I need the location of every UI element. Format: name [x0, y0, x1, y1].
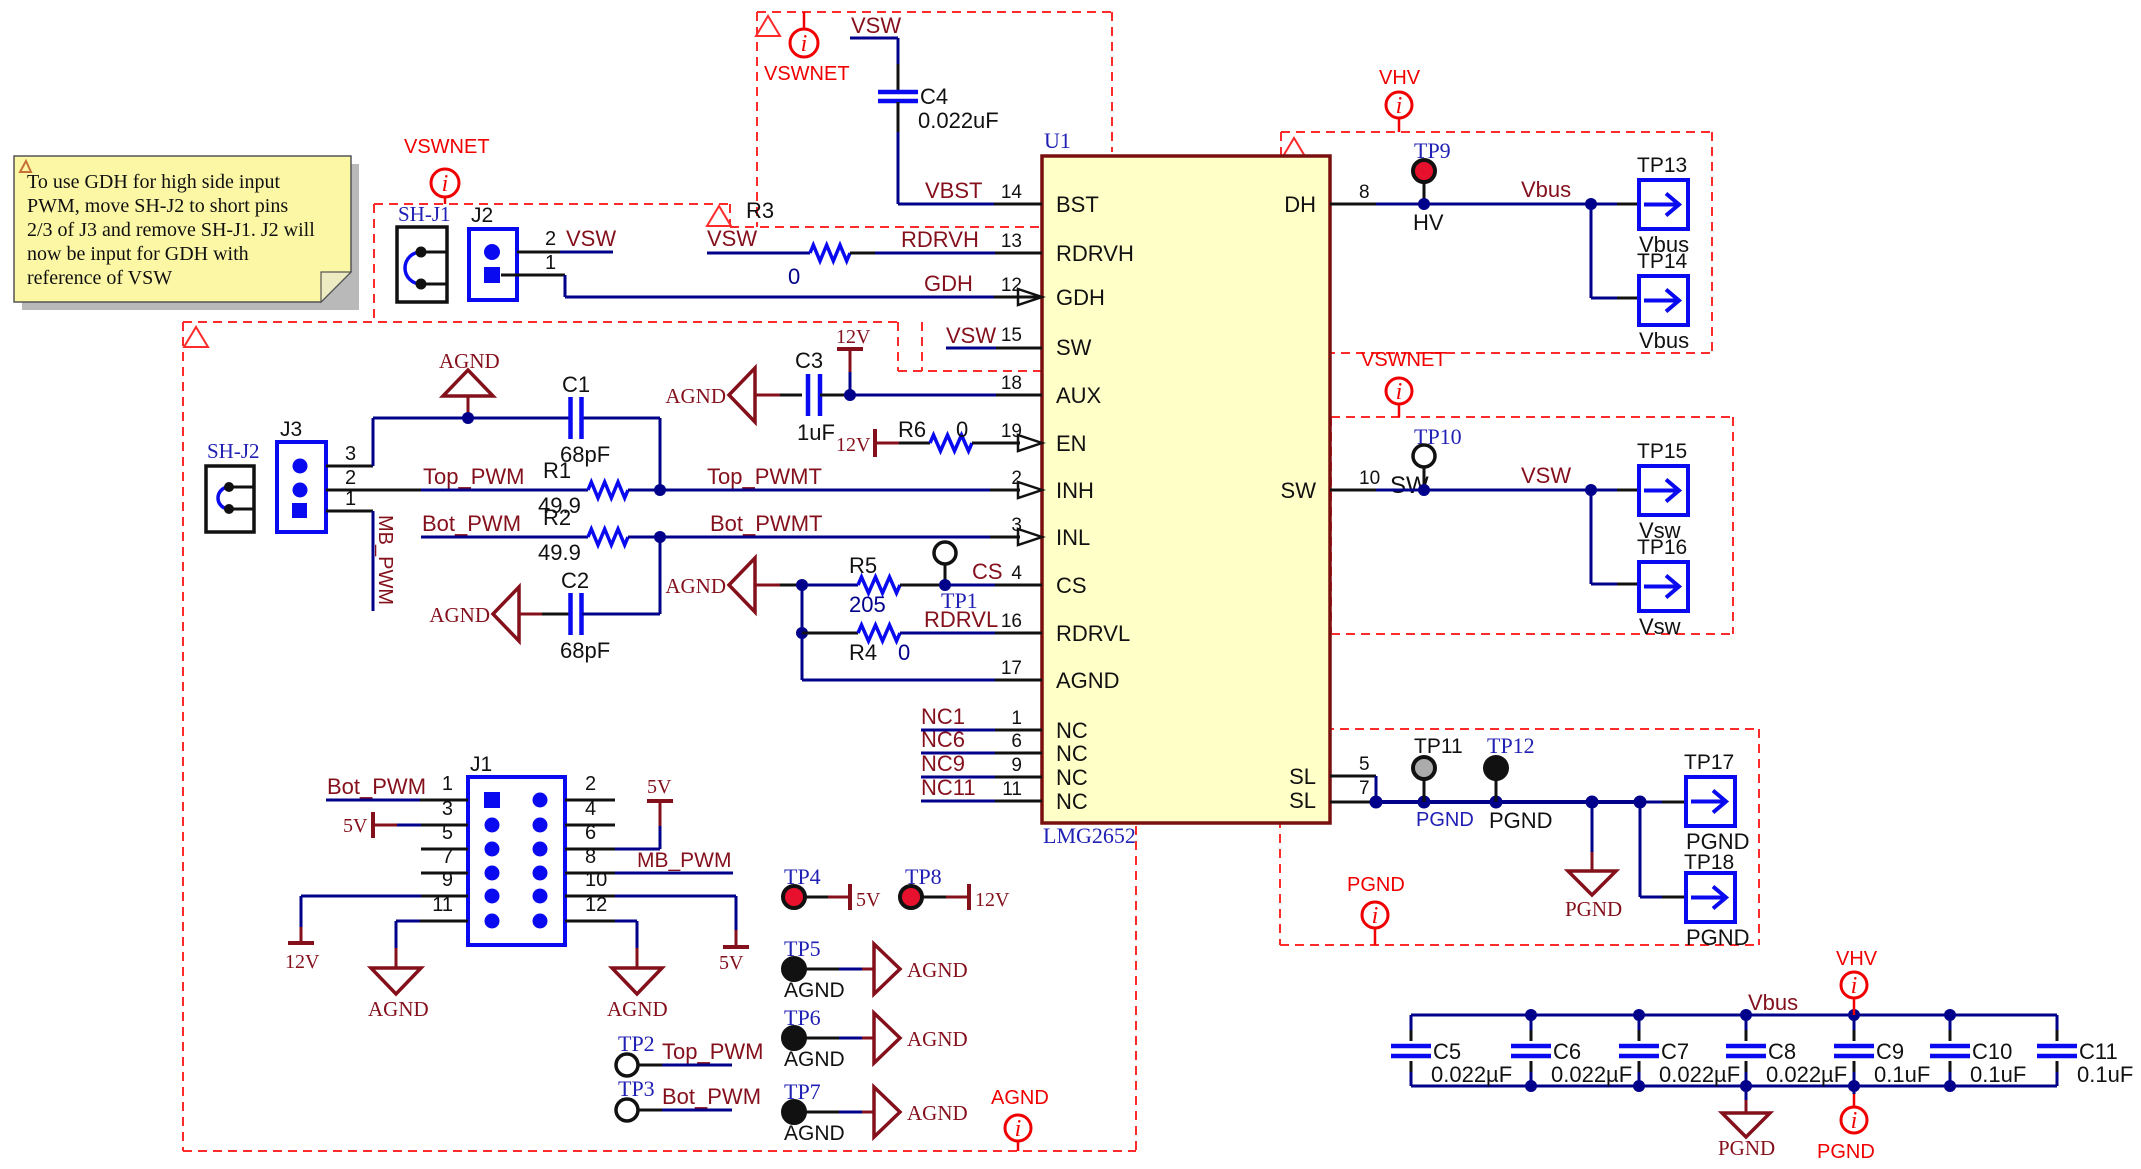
- svg-text:1: 1: [1011, 708, 1022, 729]
- wire C1 row: [373, 412, 660, 490]
- svg-text:i: i: [1015, 1116, 1022, 1142]
- test point TP11: [1413, 735, 1474, 831]
- wire to TP18: [1640, 802, 1686, 897]
- svg-text:5V: 5V: [856, 889, 881, 911]
- svg-text:8: 8: [1359, 182, 1370, 203]
- svg-text:TP18: TP18: [1684, 851, 1734, 874]
- svg-text:2: 2: [585, 773, 596, 795]
- svg-text:2/3 of J3 and remove SH-J1. J2: 2/3 of J3 and remove SH-J1. J2 will: [27, 219, 315, 241]
- svg-text:SL: SL: [1289, 764, 1316, 789]
- svg-text:0.022µF: 0.022µF: [1551, 1062, 1632, 1087]
- wire J1 pin8 MB_PWM: [565, 849, 733, 873]
- svg-text:9: 9: [1011, 755, 1022, 776]
- svg-text:0.022µF: 0.022µF: [1431, 1062, 1512, 1087]
- dashed box F (SL/PGND/TP17/TP18): [1280, 729, 1759, 945]
- capacitor C5: [1391, 1015, 1512, 1087]
- note box with text: [14, 156, 351, 302]
- power 5V (J1 pin3): [343, 812, 468, 838]
- svg-text:AGND: AGND: [784, 1048, 845, 1071]
- svg-text:PGND: PGND: [1347, 874, 1405, 896]
- wire SL pin7 bus: [1330, 796, 1647, 809]
- svg-text:AGND: AGND: [907, 1027, 968, 1051]
- dashed box A/B bottom edge: [730, 226, 1042, 228]
- ground AGND (C3): [665, 368, 802, 422]
- svg-text:VSWNET: VSWNET: [404, 136, 490, 158]
- resistor R4: [796, 625, 910, 665]
- svg-text:GDH: GDH: [1056, 285, 1105, 310]
- VHV info symbol (cap bank): [1836, 948, 1878, 1015]
- svg-text:AGND: AGND: [907, 1101, 968, 1125]
- VHV info symbol: [1379, 67, 1421, 132]
- svg-text:Bot_PWM: Bot_PWM: [662, 1084, 761, 1109]
- ground PGND (bus): [1565, 802, 1622, 921]
- svg-text:Bot_PWM: Bot_PWM: [327, 774, 426, 799]
- capacitor C4: [878, 84, 999, 133]
- test point TP2: [616, 1031, 763, 1076]
- svg-text:VSW: VSW: [946, 323, 996, 348]
- capacitor C7: [1619, 1015, 1740, 1087]
- wire SW to TP15: [1330, 484, 1639, 496]
- svg-text:Bot_PWM: Bot_PWM: [422, 511, 521, 536]
- dashed box C bottom edge: [183, 1150, 1136, 1152]
- svg-text:C6: C6: [1553, 1039, 1581, 1064]
- svg-text:10: 10: [1359, 468, 1380, 489]
- svg-text:AGND: AGND: [665, 384, 726, 408]
- svg-text:Top_PWM: Top_PWM: [662, 1039, 763, 1064]
- net label Bot_PWM: [422, 511, 521, 536]
- svg-text:SL: SL: [1289, 788, 1316, 813]
- bottom bus wire (PGND): [1411, 1080, 2057, 1092]
- net label/wire NC9: [921, 751, 1042, 777]
- wire J2 pin1 to GDH: [501, 275, 1042, 297]
- svg-text:TP14: TP14: [1637, 250, 1688, 273]
- svg-text:AGND: AGND: [368, 997, 429, 1021]
- dashed box D (TP9/TP13/TP14): [1281, 132, 1712, 353]
- test point TP17: [1684, 751, 1750, 854]
- dashed box B (SH-J1/J2) top edge: [374, 203, 730, 205]
- svg-text:NC6: NC6: [921, 727, 965, 752]
- ground PGND (C8): [1718, 1086, 1775, 1160]
- svg-text:0.022µF: 0.022µF: [1766, 1062, 1847, 1087]
- svg-text:AGND: AGND: [607, 997, 668, 1021]
- wire J3 pin2 to R1: [326, 489, 588, 492]
- dashed box C left edge: [182, 322, 184, 1151]
- svg-text:AGND: AGND: [1056, 668, 1120, 693]
- capacitor C8: [1726, 1015, 1847, 1087]
- net label VSW (SW row): [1521, 463, 1571, 488]
- test point TP14: [1637, 250, 1689, 353]
- svg-text:16: 16: [1001, 611, 1022, 632]
- net label VSW (R3 input stub): [707, 226, 757, 251]
- resistor R6: [898, 417, 972, 451]
- svg-text:To use GDH for high side input: To use GDH for high side input: [27, 171, 280, 193]
- svg-text:15: 15: [1001, 325, 1022, 346]
- VSWNET info symbol (SH-J1): [404, 136, 490, 204]
- resistor R1: [538, 458, 628, 518]
- net label Top_PWM: [423, 464, 524, 489]
- svg-text:SW: SW: [1056, 335, 1092, 360]
- svg-text:205: 205: [849, 592, 886, 617]
- test point TP16: [1637, 536, 1688, 639]
- jumper SH-J2: [206, 439, 260, 532]
- svg-text:12V: 12V: [975, 889, 1010, 911]
- wire VSW to SW pin: [946, 347, 1042, 350]
- capacitor C9: [1834, 1015, 1930, 1087]
- jumper SH-J1: [397, 202, 451, 302]
- J3 pin numbers: [345, 443, 356, 510]
- dashed box E (TP10/TP15/TP16): [1331, 417, 1733, 634]
- svg-text:C9: C9: [1876, 1039, 1904, 1064]
- svg-text:0.1uF: 0.1uF: [1874, 1062, 1930, 1087]
- net label VSW (SW pin): [946, 323, 996, 348]
- svg-text:NC: NC: [1056, 789, 1088, 814]
- svg-text:i: i: [1396, 379, 1403, 405]
- svg-text:Vbus: Vbus: [1748, 990, 1798, 1015]
- dashed box C notch bottom: [898, 370, 1042, 372]
- svg-text:Top_PWM: Top_PWM: [423, 464, 524, 489]
- svg-text:12V: 12V: [836, 434, 871, 456]
- svg-text:MB_PWM: MB_PWM: [637, 849, 732, 872]
- svg-text:C7: C7: [1661, 1039, 1689, 1064]
- svg-text:2: 2: [545, 228, 556, 250]
- svg-text:R6: R6: [898, 417, 926, 442]
- test point TP18: [1684, 851, 1750, 950]
- ground AGND (J1 pin12): [565, 921, 668, 1021]
- svg-text:NC: NC: [1056, 718, 1088, 743]
- svg-text:BST: BST: [1056, 192, 1099, 217]
- svg-text:Bot_PWMT: Bot_PWMT: [710, 511, 822, 536]
- power 12V (J1 pin9): [285, 896, 468, 973]
- svg-text:AGND: AGND: [665, 574, 726, 598]
- power 5V (J1 pin6): [565, 776, 673, 849]
- svg-text:Vbus: Vbus: [1639, 328, 1689, 353]
- net label Vbus (cap bank): [1748, 990, 1798, 1015]
- svg-text:5: 5: [1359, 754, 1370, 775]
- svg-text:C3: C3: [795, 348, 823, 373]
- svg-text:SW: SW: [1281, 478, 1317, 503]
- note shadow: [22, 164, 359, 310]
- svg-text:i: i: [801, 31, 808, 57]
- wire J2 pin2 VSW stub: [517, 251, 613, 254]
- svg-text:VSW: VSW: [707, 226, 757, 251]
- capacitor C1: [560, 372, 610, 467]
- svg-text:VHV: VHV: [1836, 948, 1878, 970]
- net label Bot_PWMT: [710, 511, 822, 536]
- svg-text:11: 11: [1002, 779, 1022, 800]
- capacitor C6: [1511, 1015, 1632, 1087]
- svg-text:13: 13: [1001, 231, 1022, 252]
- svg-text:VBST: VBST: [925, 178, 982, 203]
- svg-text:12V: 12V: [836, 326, 871, 348]
- svg-text:AGND: AGND: [991, 1087, 1049, 1109]
- svg-text:C8: C8: [1768, 1039, 1796, 1064]
- svg-text:1: 1: [545, 252, 556, 274]
- power 12V (C3/AUX): [836, 326, 871, 395]
- test point TP12: [1485, 733, 1553, 833]
- net label/wire NC11: [921, 775, 1042, 801]
- test point TP15: [1637, 440, 1688, 543]
- capacitor C10: [1930, 1015, 2026, 1087]
- net label Vbus (DH row): [1521, 177, 1571, 202]
- svg-text:VSW: VSW: [1521, 463, 1571, 488]
- svg-text:AUX: AUX: [1056, 383, 1102, 408]
- test point TP1: [934, 542, 978, 613]
- svg-text:18: 18: [1001, 373, 1022, 394]
- svg-text:Vsw: Vsw: [1639, 614, 1681, 639]
- wire J1 pin5: [421, 848, 468, 851]
- U1 right pin names and numbers: [1281, 182, 1381, 813]
- svg-text:7: 7: [1359, 778, 1370, 799]
- wire R5 to CS pin: [900, 579, 1042, 591]
- wire VSW stub to R3: [707, 252, 810, 255]
- svg-text:VSWNET: VSWNET: [764, 63, 850, 85]
- VSWNET info symbol (SW): [1361, 349, 1447, 417]
- svg-text:J2: J2: [471, 204, 493, 227]
- svg-text:AGND: AGND: [784, 979, 845, 1002]
- svg-text:NC: NC: [1056, 741, 1088, 766]
- svg-text:RDRVL: RDRVL: [924, 607, 998, 632]
- net label VSW (J2 pin2 stub): [566, 226, 616, 251]
- wire to TP17: [1640, 801, 1686, 804]
- svg-text:MB_PWM: MB_PWM: [374, 515, 396, 605]
- svg-text:C5: C5: [1433, 1039, 1461, 1064]
- svg-text:J1: J1: [470, 753, 492, 776]
- svg-text:4: 4: [1011, 563, 1022, 584]
- wire Bot_PWM stub to R2: [421, 536, 588, 539]
- AGND info symbol (box C): [991, 1087, 1049, 1151]
- svg-text:5V: 5V: [343, 815, 368, 837]
- ground AGND (J1 pin11): [368, 921, 468, 1021]
- capacitor C3: [795, 348, 835, 445]
- svg-text:RDRVH: RDRVH: [901, 227, 979, 252]
- power 5V (J1 pin10): [565, 896, 749, 974]
- svg-text:17: 17: [1001, 658, 1022, 679]
- svg-text:R4: R4: [849, 640, 877, 665]
- svg-text:VSW: VSW: [851, 13, 901, 38]
- svg-text:LMG2652: LMG2652: [1043, 823, 1136, 848]
- wire C3 to AUX pin: [820, 389, 1042, 401]
- svg-text:TP3: TP3: [618, 1076, 655, 1101]
- wire R4 to RDRVL pin: [900, 632, 1042, 635]
- svg-text:i: i: [1851, 1108, 1858, 1134]
- svg-text:HV: HV: [1413, 210, 1444, 235]
- resistor R2: [538, 505, 628, 565]
- dashed box C notch vertical 1: [897, 322, 899, 371]
- svg-text:C1: C1: [562, 372, 590, 397]
- net label Top_PWMT: [707, 464, 822, 489]
- test point TP8 (12V): [900, 864, 1010, 911]
- wire R3 to RDRVH pin: [850, 252, 1042, 255]
- wire J1 pin1 Bot_PWM: [326, 774, 468, 800]
- test point TP3: [616, 1076, 761, 1121]
- dashed box A right edge: [1111, 12, 1113, 152]
- wire J1 pin2: [565, 799, 615, 802]
- svg-text:TP16: TP16: [1637, 536, 1687, 559]
- J1 left pin numbers: [432, 773, 453, 916]
- J2 pin numbers: [545, 228, 556, 274]
- svg-text:VSW: VSW: [566, 226, 616, 251]
- svg-text:VSWNET: VSWNET: [1361, 349, 1447, 371]
- svg-text:0.1uF: 0.1uF: [1970, 1062, 2026, 1087]
- test point TP5 (AGND): [783, 936, 968, 1002]
- svg-text:J3: J3: [280, 418, 302, 441]
- svg-text:INH: INH: [1056, 478, 1094, 503]
- svg-text:i: i: [1396, 93, 1403, 119]
- svg-text:TP12: TP12: [1487, 733, 1535, 758]
- svg-text:1: 1: [442, 773, 453, 795]
- ground AGND (C2): [429, 587, 570, 641]
- wire J3 pin1 MB_PWM: [326, 511, 373, 611]
- net label RDRVL: [924, 607, 998, 632]
- connector J2: [469, 204, 517, 300]
- svg-text:TP2: TP2: [618, 1031, 655, 1056]
- wire J1 pin7: [421, 872, 468, 875]
- wire VSW to C4: [850, 38, 898, 91]
- svg-text:C11: C11: [2079, 1039, 2118, 1064]
- wire to TP14: [1591, 204, 1639, 298]
- svg-text:R5: R5: [849, 553, 877, 578]
- svg-text:EN: EN: [1056, 431, 1087, 456]
- svg-text:R1: R1: [543, 458, 571, 483]
- svg-text:PGND: PGND: [1817, 1141, 1875, 1163]
- svg-text:2: 2: [345, 467, 356, 489]
- U1 input pin arrows (GDH,EN,INH,INL): [1018, 289, 1042, 545]
- test point TP6 (AGND): [783, 1005, 968, 1071]
- svg-text:14: 14: [1001, 182, 1023, 203]
- capacitor C11: [2037, 1015, 2133, 1087]
- dashed box B left edge: [373, 204, 375, 322]
- flag triangle box D: [1282, 138, 1306, 158]
- svg-text:3: 3: [345, 443, 356, 465]
- svg-text:i: i: [1851, 973, 1858, 999]
- wire C2 to Bot_PWMT: [582, 537, 660, 614]
- wire SL pin5: [1330, 776, 1376, 802]
- svg-text:0.022uF: 0.022uF: [918, 108, 999, 133]
- svg-text:SH-J1: SH-J1: [398, 202, 451, 226]
- svg-text:NC1: NC1: [921, 704, 965, 729]
- svg-text:PGND: PGND: [1489, 808, 1553, 833]
- VSWNET info symbol (top): [764, 12, 850, 85]
- svg-text:PGND: PGND: [1416, 809, 1474, 831]
- ground AGND (C1): [439, 349, 500, 418]
- flag triangle box A: [756, 16, 780, 36]
- dashed box A (VSWNET/C4 region) top edge: [757, 11, 1112, 13]
- svg-text:6: 6: [1011, 731, 1022, 752]
- flag triangle box B: [707, 206, 731, 226]
- wire R2 to INL pin: [628, 531, 1020, 543]
- svg-text:R2: R2: [543, 505, 571, 530]
- svg-text:0: 0: [788, 264, 800, 289]
- connector J1: [468, 753, 565, 945]
- power 12V (EN): [836, 429, 899, 457]
- dashed box B right edge: [729, 204, 731, 227]
- svg-text:PGND: PGND: [1686, 925, 1750, 950]
- net label RDRVH: [901, 227, 979, 252]
- svg-text:NC: NC: [1056, 765, 1088, 790]
- svg-text:R3: R3: [746, 198, 774, 223]
- svg-text:SH-J2: SH-J2: [207, 439, 260, 463]
- wire J1 pin4: [565, 824, 615, 827]
- svg-text:5V: 5V: [719, 952, 744, 974]
- capacitor C2: [560, 568, 610, 663]
- svg-text:VHV: VHV: [1379, 67, 1421, 89]
- svg-text:C4: C4: [920, 84, 948, 109]
- net label/wire NC1: [921, 704, 1042, 730]
- svg-text:C2: C2: [561, 568, 589, 593]
- net label MB_PWM (vertical): [374, 515, 396, 605]
- net label GDH: [924, 271, 973, 296]
- J1 right pin numbers: [585, 773, 607, 916]
- svg-text:NC11: NC11: [921, 775, 976, 800]
- wire to AGND pin17: [802, 679, 1042, 682]
- wire C4 to BST corner: [898, 102, 1042, 204]
- resistor R3: [746, 198, 850, 289]
- svg-text:RDRVH: RDRVH: [1056, 241, 1134, 266]
- flag triangle box C: [184, 327, 208, 347]
- svg-text:0: 0: [956, 417, 968, 442]
- svg-text:68pF: 68pF: [560, 638, 610, 663]
- svg-text:i: i: [1372, 903, 1379, 929]
- power net label VSW (top, to C4): [851, 13, 901, 38]
- wire to TP16: [1591, 490, 1639, 584]
- svg-text:INL: INL: [1056, 525, 1090, 550]
- svg-text:TP13: TP13: [1637, 154, 1687, 177]
- op-amp U1 body (LMG2652 driver IC): [1042, 128, 1330, 848]
- svg-text:AGND: AGND: [784, 1122, 845, 1145]
- svg-text:0.1uF: 0.1uF: [2077, 1062, 2133, 1087]
- wire AGND to R5: [796, 579, 858, 591]
- wire AGND vertical to RDRVL/AGND17: [801, 585, 804, 680]
- test point TP4 (5V): [783, 864, 881, 911]
- dashed box C notch vertical 2: [921, 322, 923, 371]
- test point TP10: [1390, 424, 1462, 499]
- svg-text:TP11: TP11: [1414, 735, 1463, 758]
- svg-text:5V: 5V: [647, 776, 672, 798]
- test point TP13: [1637, 154, 1689, 257]
- svg-text:TP15: TP15: [1637, 440, 1687, 463]
- net label VBST: [925, 178, 982, 203]
- svg-text:AGND: AGND: [429, 603, 490, 627]
- svg-text:AGND: AGND: [907, 958, 968, 982]
- svg-text:now be input for GDH with: now be input for GDH with: [27, 243, 249, 265]
- svg-text:DH: DH: [1284, 192, 1316, 217]
- Vbus top bus wire: [1411, 1009, 2057, 1021]
- net label CS: [972, 559, 1003, 584]
- svg-text:reference of VSW: reference of VSW: [27, 267, 172, 289]
- wire J3 pin3 up to C1 row: [326, 418, 373, 466]
- resistor R5: [849, 553, 900, 617]
- svg-text:0.022µF: 0.022µF: [1659, 1062, 1740, 1087]
- net label/wire NC6: [921, 727, 1042, 753]
- dashed box A left edge: [756, 12, 758, 227]
- PGND info symbol (box F): [1347, 874, 1405, 945]
- dashed box C (main left region) top edge: [183, 321, 898, 323]
- svg-text:0: 0: [898, 640, 910, 665]
- svg-text:49.9: 49.9: [538, 540, 581, 565]
- ground AGND (CS row): [665, 558, 802, 612]
- svg-text:CS: CS: [972, 559, 1003, 584]
- wire DH to TP13: [1330, 198, 1639, 235]
- svg-text:GDH: GDH: [924, 271, 973, 296]
- svg-text:i: i: [442, 171, 449, 197]
- connector J3: [277, 418, 326, 532]
- svg-text:1uF: 1uF: [797, 420, 835, 445]
- svg-text:Top_PWMT: Top_PWMT: [707, 464, 822, 489]
- svg-text:PGND: PGND: [1718, 1136, 1775, 1160]
- svg-text:C10: C10: [1972, 1039, 2012, 1064]
- svg-text:CS: CS: [1056, 573, 1087, 598]
- dashed box C right edge: [1135, 826, 1137, 1151]
